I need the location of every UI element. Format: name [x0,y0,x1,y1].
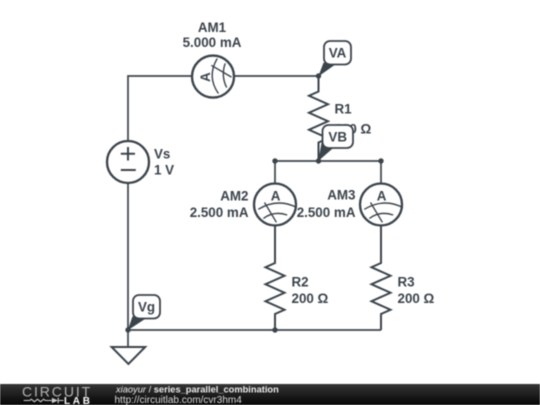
junction ground node [125,327,130,332]
ammeter AM3 [360,184,403,226]
wire top-left horizontal [128,76,192,141]
svg-text:VA: VA [329,46,347,61]
logo wire-diode glyph [24,398,64,404]
svg-text:200 Ω: 200 Ω [292,291,329,306]
svg-text:A: A [198,72,213,82]
wire ground stub [127,330,129,347]
svg-text:A: A [377,188,387,203]
junction AM3 branch top [378,158,383,163]
wire top-right horizontal [234,75,319,77]
node VA flag [318,41,351,77]
wire bottom horizontal ground net [128,329,381,331]
wire mid horizontal node VB [275,160,381,162]
svg-text:AM2: AM2 [220,189,248,204]
voltage source Vs [107,141,149,183]
resistor R1 [309,76,328,161]
svg-text:Vg: Vg [138,300,155,315]
svg-text:R2: R2 [292,275,309,290]
junction AM2 branch top [272,158,277,163]
junction node A (top of R1) [316,73,321,78]
svg-text:2.500 mA: 2.500 mA [297,205,356,220]
svg-text:R1: R1 [335,102,353,117]
node VB flag [318,125,353,161]
svg-text:R3: R3 [398,275,415,290]
resistor R2 [266,226,285,331]
wire AM2 top lead [274,161,276,184]
svg-text:AM1: AM1 [198,20,227,35]
ammeter AM1 [192,56,234,98]
svg-text:A: A [271,188,281,203]
resistor R3 [372,226,391,331]
wire AM3 top lead [380,161,382,184]
svg-text:VB: VB [328,130,347,145]
footer bar [0,384,540,405]
svg-text:1 V: 1 V [154,163,174,178]
junction node B (bottom of R1) [316,158,321,163]
svg-text:200 Ω: 200 Ω [398,291,435,306]
wire left vertical below Vs [127,183,129,330]
junction R2 bottom [272,327,277,332]
ground symbol [112,347,146,364]
svg-text:http://circuitlab.com/cvr3hm4: http://circuitlab.com/cvr3hm4 [115,395,243,405]
svg-text:2.500 mA: 2.500 mA [190,205,249,220]
svg-text:LAB: LAB [64,396,93,405]
svg-text:AM3: AM3 [327,188,355,203]
ammeter AM2 [254,184,297,226]
svg-text:xiaoyur / series_parallel_comb: xiaoyur / series_parallel_combination [115,385,279,395]
svg-text:5.000 mA: 5.000 mA [183,35,242,50]
svg-text:Vs: Vs [154,147,170,162]
node Vg flag [128,295,160,330]
